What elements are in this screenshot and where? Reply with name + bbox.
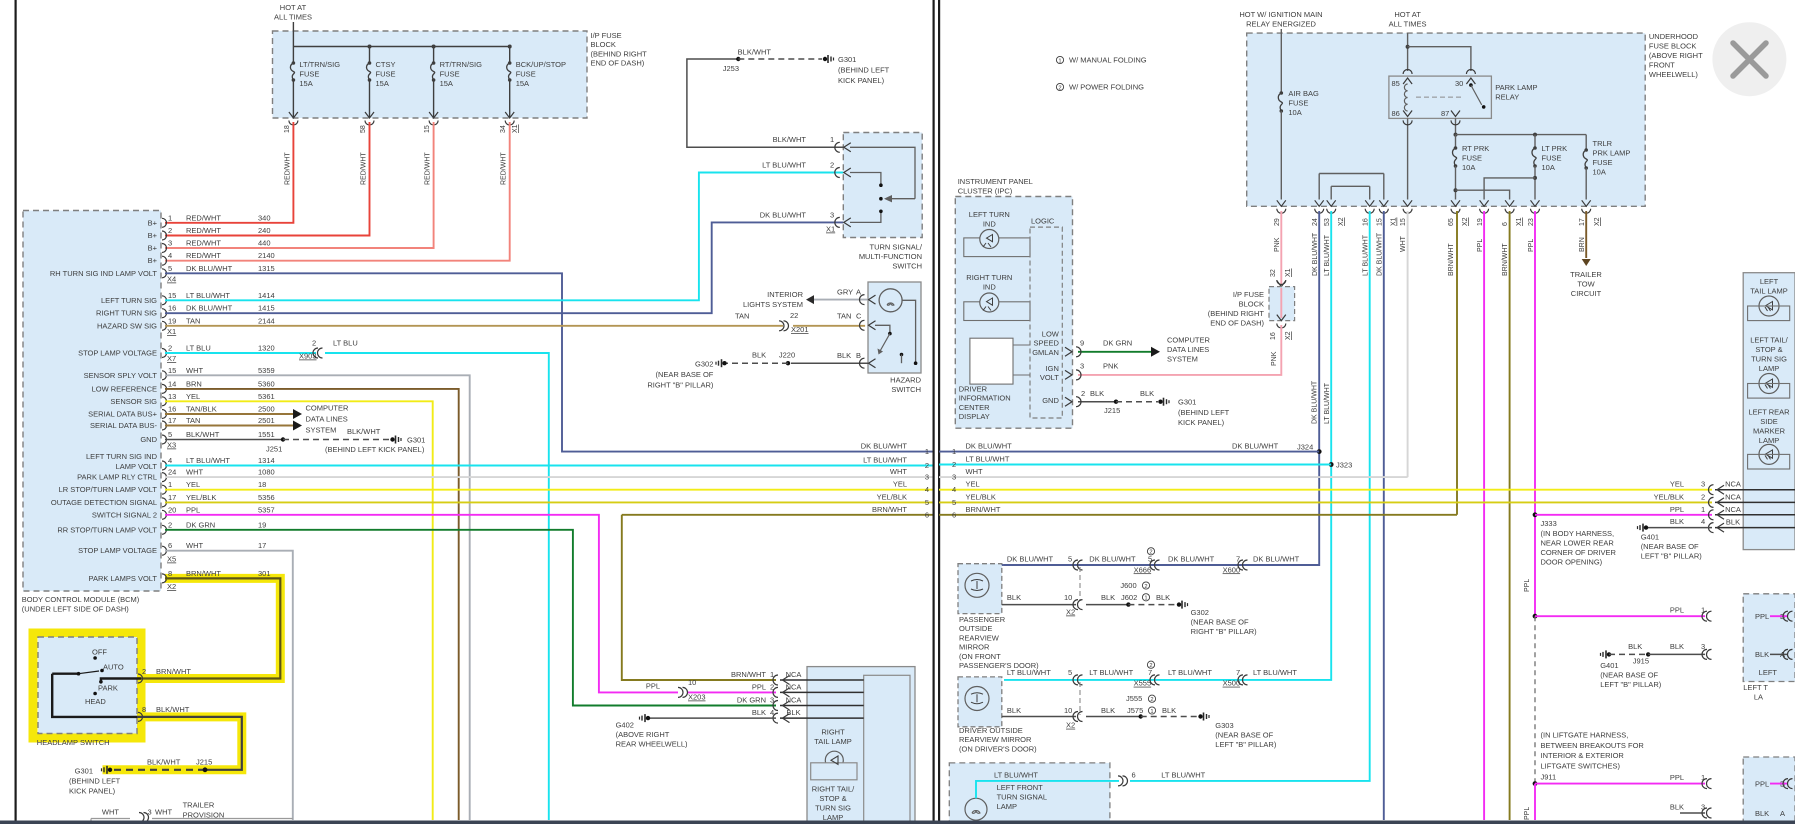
svg-text:16: 16 [1270, 332, 1277, 340]
svg-text:PNK: PNK [1103, 361, 1118, 370]
svg-text:RIGHT TAIL/: RIGHT TAIL/ [812, 785, 855, 794]
svg-text:DK BLU/WHT: DK BLU/WHT [1168, 555, 1215, 564]
svg-text:(ON FRONT: (ON FRONT [959, 652, 1001, 661]
svg-text:ALL TIMES: ALL TIMES [274, 13, 312, 22]
svg-text:DK BLU/WHT: DK BLU/WHT [1232, 442, 1279, 451]
svg-text:LEFT T: LEFT T [1743, 683, 1768, 692]
svg-text:W/ MANUAL FOLDING: W/ MANUAL FOLDING [1069, 56, 1147, 65]
svg-text:END OF DASH): END OF DASH) [1210, 319, 1264, 328]
svg-text:CIRCUIT: CIRCUIT [1571, 289, 1602, 298]
svg-text:1320: 1320 [258, 344, 275, 353]
svg-text:PPL: PPL [1524, 807, 1531, 820]
svg-text:X2: X2 [1462, 217, 1469, 226]
svg-text:AUTO: AUTO [103, 663, 124, 672]
svg-text:RIGHT: RIGHT [821, 728, 845, 737]
svg-text:2: 2 [1149, 663, 1152, 669]
svg-text:1: 1 [952, 447, 956, 456]
svg-text:1: 1 [925, 447, 929, 456]
svg-text:2: 2 [312, 339, 316, 348]
svg-text:3: 3 [830, 211, 834, 220]
svg-text:A: A [1780, 809, 1785, 818]
svg-text:J220: J220 [779, 351, 795, 360]
svg-text:RIGHT TURN: RIGHT TURN [966, 273, 1012, 282]
svg-text:IGN: IGN [1046, 364, 1059, 373]
svg-text:2: 2 [952, 460, 956, 469]
svg-text:LOW: LOW [1042, 330, 1060, 339]
svg-text:DK BLU/WHT: DK BLU/WHT [1377, 232, 1384, 276]
svg-text:1314: 1314 [258, 456, 275, 465]
svg-text:NCA: NCA [1725, 480, 1741, 489]
svg-text:G303: G303 [1215, 721, 1233, 730]
svg-text:1: 1 [1701, 606, 1705, 615]
svg-text:LT BLU/WHT: LT BLU/WHT [186, 291, 230, 300]
svg-text:5357: 5357 [258, 505, 275, 514]
svg-text:LAMP: LAMP [997, 802, 1017, 811]
svg-text:2: 2 [168, 226, 172, 235]
svg-text:2: 2 [1149, 550, 1152, 556]
svg-text:DK BLU/WHT: DK BLU/WHT [1089, 555, 1136, 564]
svg-text:REARVIEW: REARVIEW [959, 633, 1000, 642]
svg-text:LAMP VOLT: LAMP VOLT [116, 462, 158, 471]
svg-text:3: 3 [1701, 642, 1705, 651]
svg-text:RED/WHT: RED/WHT [186, 239, 221, 248]
svg-text:C: C [856, 312, 862, 321]
svg-text:DRIVER: DRIVER [959, 385, 988, 394]
svg-text:LIGHTS SYSTEM: LIGHTS SYSTEM [743, 300, 803, 309]
svg-text:6: 6 [168, 541, 172, 550]
svg-text:(NEAR BASE OF: (NEAR BASE OF [1215, 731, 1273, 740]
svg-text:YEL: YEL [186, 480, 200, 489]
svg-text:X1: X1 [512, 124, 519, 133]
svg-text:G302: G302 [695, 360, 713, 369]
svg-text:16: 16 [1363, 218, 1370, 226]
svg-text:BLK: BLK [1162, 706, 1176, 715]
svg-text:B+: B+ [148, 244, 158, 253]
svg-text:X600: X600 [1223, 565, 1241, 574]
svg-text:TAIL LAMP: TAIL LAMP [814, 737, 852, 746]
svg-text:6: 6 [1502, 222, 1509, 226]
svg-text:PPL: PPL [1755, 779, 1769, 788]
svg-text:10A: 10A [1288, 108, 1301, 117]
svg-text:MARKER: MARKER [1753, 427, 1786, 436]
svg-text:1: 1 [1701, 773, 1705, 782]
svg-text:DOOR OPENING): DOOR OPENING) [1541, 558, 1603, 567]
svg-text:RED/WHT: RED/WHT [186, 251, 221, 260]
svg-text:PPL: PPL [1528, 239, 1535, 252]
svg-text:LAMP: LAMP [1759, 364, 1779, 373]
svg-text:BLK: BLK [1670, 803, 1684, 812]
svg-text:J251: J251 [266, 445, 282, 454]
svg-text:J323: J323 [1336, 461, 1352, 470]
svg-text:34: 34 [500, 125, 507, 133]
svg-text:YEL: YEL [1670, 480, 1684, 489]
svg-text:1414: 1414 [258, 291, 275, 300]
svg-text:2: 2 [925, 461, 929, 470]
svg-text:HAZARD SW SIG: HAZARD SW SIG [97, 321, 157, 330]
svg-text:TRLR: TRLR [1593, 139, 1613, 148]
svg-text:DISPLAY: DISPLAY [959, 412, 990, 421]
svg-text:LT BLU: LT BLU [186, 344, 211, 353]
svg-text:LEFT REAR: LEFT REAR [1748, 408, 1790, 417]
svg-text:G301: G301 [75, 766, 93, 775]
svg-text:8: 8 [142, 705, 146, 714]
svg-text:4: 4 [952, 485, 956, 494]
svg-text:PNK: PNK [1271, 351, 1278, 366]
svg-text:PPL: PPL [752, 682, 766, 691]
svg-text:LT BLU/WHT: LT BLU/WHT [863, 456, 907, 465]
svg-text:3: 3 [1701, 803, 1705, 812]
svg-text:YEL/BLK: YEL/BLK [186, 493, 216, 502]
svg-text:UNDERHOOD: UNDERHOOD [1649, 32, 1699, 41]
svg-text:DK BLU/WHT: DK BLU/WHT [186, 304, 233, 313]
svg-text:LOGIC: LOGIC [1031, 217, 1055, 226]
svg-text:14: 14 [168, 379, 176, 388]
svg-text:BRN/WHT: BRN/WHT [731, 670, 766, 679]
svg-text:J324: J324 [1297, 443, 1313, 452]
svg-text:LT BLU/WHT: LT BLU/WHT [1253, 668, 1297, 677]
svg-text:STOP &: STOP & [819, 794, 846, 803]
svg-text:240: 240 [258, 226, 271, 235]
svg-text:2: 2 [830, 161, 834, 170]
svg-text:19: 19 [168, 316, 176, 325]
svg-text:HOT AT: HOT AT [280, 3, 307, 12]
svg-text:SERIAL DATA BUS+: SERIAL DATA BUS+ [88, 410, 157, 419]
svg-text:CENTER: CENTER [959, 403, 990, 412]
svg-text:440: 440 [258, 239, 271, 248]
svg-text:PPL: PPL [186, 505, 200, 514]
svg-text:WHT: WHT [186, 366, 203, 375]
svg-text:X2: X2 [1066, 608, 1075, 617]
svg-text:LT BLU/WHT: LT BLU/WHT [966, 455, 1010, 464]
svg-text:16: 16 [168, 405, 176, 414]
svg-text:GMLAN: GMLAN [1032, 348, 1059, 357]
svg-text:BLK: BLK [1670, 642, 1684, 651]
svg-text:OFF: OFF [92, 648, 107, 657]
svg-text:WHT: WHT [186, 468, 203, 477]
svg-text:YEL: YEL [893, 480, 907, 489]
svg-text:2: 2 [1144, 584, 1147, 590]
svg-text:DK BLU/WHT: DK BLU/WHT [1007, 555, 1054, 564]
svg-text:3: 3 [952, 473, 956, 482]
svg-text:2500: 2500 [258, 405, 275, 414]
svg-text:X7: X7 [167, 354, 176, 363]
svg-text:J215: J215 [196, 758, 212, 767]
svg-text:5361: 5361 [258, 392, 275, 401]
svg-text:J215: J215 [1104, 406, 1120, 415]
svg-text:2: 2 [1150, 697, 1153, 703]
svg-text:RED/WHT: RED/WHT [501, 152, 508, 185]
svg-text:LT BLU: LT BLU [333, 339, 358, 348]
svg-text:1: 1 [168, 213, 172, 222]
svg-text:SWITCH: SWITCH [892, 262, 922, 271]
svg-text:TURN SIG: TURN SIG [1751, 355, 1787, 364]
svg-text:PASSENGER: PASSENGER [959, 615, 1006, 624]
svg-text:2: 2 [168, 344, 172, 353]
svg-text:LT BLU/WHT: LT BLU/WHT [1168, 668, 1212, 677]
svg-text:STOP &: STOP & [1755, 345, 1782, 354]
svg-text:SYSTEM: SYSTEM [1167, 355, 1198, 364]
svg-text:NCA: NCA [786, 670, 802, 679]
svg-text:2501: 2501 [258, 416, 275, 425]
svg-text:15: 15 [424, 125, 431, 133]
svg-text:1080: 1080 [258, 468, 275, 477]
svg-text:5: 5 [168, 264, 172, 273]
svg-text:B+: B+ [148, 231, 158, 240]
svg-text:65: 65 [1448, 218, 1455, 226]
svg-text:HOT W/ IGNITION MAIN: HOT W/ IGNITION MAIN [1239, 10, 1322, 19]
svg-text:1: 1 [1058, 58, 1061, 64]
svg-text:2: 2 [1058, 85, 1061, 91]
svg-text:TRAILER: TRAILER [183, 801, 215, 810]
svg-text:A: A [856, 288, 861, 297]
svg-text:LAMP: LAMP [1759, 436, 1779, 445]
svg-text:J575: J575 [1127, 706, 1143, 715]
svg-text:SYSTEM: SYSTEM [306, 426, 337, 435]
svg-text:X1: X1 [1391, 217, 1398, 226]
svg-text:HEAD: HEAD [85, 697, 106, 706]
svg-text:PARK LAMP RLY CTRL: PARK LAMP RLY CTRL [77, 473, 157, 482]
svg-text:15: 15 [1377, 218, 1384, 226]
svg-text:LEFT "B" PILLAR): LEFT "B" PILLAR) [1600, 680, 1662, 689]
svg-text:END OF DASH): END OF DASH) [591, 59, 645, 68]
svg-text:3: 3 [1701, 480, 1705, 489]
svg-text:RED/WHT: RED/WHT [284, 152, 291, 185]
svg-text:5360: 5360 [258, 379, 275, 388]
svg-text:LEFT TURN: LEFT TURN [969, 210, 1010, 219]
svg-text:DK BLU/WHT: DK BLU/WHT [1253, 555, 1300, 564]
svg-text:(BEHIND RIGHT: (BEHIND RIGHT [591, 49, 648, 58]
svg-text:10A: 10A [1593, 168, 1606, 177]
svg-text:1: 1 [1144, 596, 1147, 602]
svg-text:B: B [856, 351, 861, 360]
svg-text:BLK: BLK [1755, 650, 1769, 659]
svg-text:BLK/WHT: BLK/WHT [156, 705, 190, 714]
svg-text:LT BLU/WHT: LT BLU/WHT [1089, 668, 1133, 677]
svg-text:2140: 2140 [258, 251, 275, 260]
svg-text:RR STOP/TURN LAMP VOLT: RR STOP/TURN LAMP VOLT [57, 525, 157, 534]
svg-text:5356: 5356 [258, 493, 275, 502]
svg-text:LA: LA [1754, 693, 1763, 702]
svg-text:SENSOR SIG: SENSOR SIG [110, 397, 157, 406]
svg-text:PRK LAMP: PRK LAMP [1593, 149, 1631, 158]
svg-text:J333: J333 [1541, 519, 1557, 528]
svg-text:CLUSTER (IPC): CLUSTER (IPC) [958, 186, 1013, 195]
svg-text:NCA: NCA [1725, 505, 1741, 514]
svg-text:BLK: BLK [837, 351, 851, 360]
svg-text:WHT: WHT [1400, 235, 1407, 252]
svg-text:15: 15 [168, 291, 176, 300]
svg-text:LT BLU/WHT: LT BLU/WHT [1007, 668, 1051, 677]
svg-text:PPL: PPL [1477, 239, 1484, 252]
svg-text:58: 58 [360, 125, 367, 133]
svg-text:NCA: NCA [786, 682, 802, 691]
svg-text:SWITCH: SWITCH [891, 385, 921, 394]
svg-text:RELAY ENERGIZED: RELAY ENERGIZED [1246, 20, 1316, 29]
svg-text:BLOCK: BLOCK [1239, 300, 1264, 309]
svg-text:6: 6 [952, 510, 956, 519]
svg-text:BRN/WHT: BRN/WHT [1502, 243, 1509, 276]
svg-text:X2: X2 [1338, 217, 1345, 226]
svg-text:AIR BAG: AIR BAG [1288, 89, 1319, 98]
svg-text:RT/TRN/SIG: RT/TRN/SIG [440, 60, 483, 69]
svg-text:3: 3 [148, 808, 152, 817]
svg-text:X203: X203 [688, 693, 706, 702]
svg-text:INFORMATION: INFORMATION [959, 394, 1011, 403]
svg-text:BLK: BLK [786, 708, 800, 717]
svg-text:LT BLU/WHT: LT BLU/WHT [186, 456, 230, 465]
svg-text:PARK LAMP: PARK LAMP [1495, 83, 1537, 92]
svg-text:RED/WHT: RED/WHT [425, 152, 432, 185]
svg-text:1551: 1551 [258, 430, 275, 439]
svg-text:1: 1 [1701, 505, 1705, 514]
svg-text:RED/WHT: RED/WHT [361, 152, 368, 185]
svg-text:8: 8 [168, 569, 172, 578]
svg-text:GND: GND [1042, 396, 1059, 405]
svg-text:2: 2 [1701, 492, 1705, 501]
svg-text:FUSE BLOCK: FUSE BLOCK [1649, 42, 1697, 51]
svg-text:SERIAL DATA BUS-: SERIAL DATA BUS- [90, 421, 157, 430]
svg-text:BLK: BLK [1670, 517, 1684, 526]
svg-text:LEFT TAIL/: LEFT TAIL/ [1750, 336, 1788, 345]
svg-text:17: 17 [1579, 218, 1586, 226]
svg-text:5: 5 [1068, 555, 1072, 564]
svg-text:LT BLU/WHT: LT BLU/WHT [1324, 382, 1331, 424]
svg-text:X1: X1 [826, 225, 835, 234]
svg-text:24: 24 [1312, 218, 1319, 226]
svg-text:DK GRN: DK GRN [186, 520, 215, 529]
svg-text:FUSE: FUSE [516, 70, 536, 79]
svg-text:X201: X201 [791, 325, 809, 334]
svg-text:9: 9 [1080, 338, 1084, 347]
svg-text:(ABOVE RIGHT: (ABOVE RIGHT [616, 730, 670, 739]
svg-text:(BEHIND LEFT KICK PANEL): (BEHIND LEFT KICK PANEL) [325, 445, 425, 454]
svg-text:TURN SIG: TURN SIG [815, 804, 851, 813]
svg-text:1315: 1315 [258, 264, 275, 273]
svg-text:6: 6 [1132, 770, 1136, 779]
svg-text:SPEED: SPEED [1033, 339, 1059, 348]
svg-text:BLK: BLK [1101, 706, 1115, 715]
svg-text:X555: X555 [1134, 679, 1152, 688]
svg-text:J600: J600 [1120, 581, 1136, 590]
svg-text:BLK/WHT: BLK/WHT [738, 48, 772, 57]
svg-text:LT BLU/WHT: LT BLU/WHT [1363, 234, 1370, 276]
svg-text:BLK/WHT: BLK/WHT [347, 427, 381, 436]
svg-text:X5: X5 [167, 555, 176, 564]
svg-text:HEADLAMP SWITCH: HEADLAMP SWITCH [37, 738, 110, 747]
svg-text:GRY: GRY [837, 288, 853, 297]
svg-text:(BEHIND LEFT: (BEHIND LEFT [838, 66, 890, 75]
svg-text:29: 29 [1274, 218, 1281, 226]
svg-text:PPL: PPL [646, 681, 660, 690]
svg-text:(NEAR BASE OF: (NEAR BASE OF [1191, 618, 1249, 627]
svg-text:LEFT TURN SIG IND: LEFT TURN SIG IND [86, 452, 158, 461]
svg-text:TAN: TAN [735, 312, 749, 321]
svg-text:53: 53 [1324, 218, 1331, 226]
svg-text:YEL/BLK: YEL/BLK [966, 492, 996, 501]
svg-text:(IN BODY HARNESS,: (IN BODY HARNESS, [1541, 529, 1615, 538]
svg-text:OUTAGE DETECTION SIGNAL: OUTAGE DETECTION SIGNAL [51, 498, 157, 507]
svg-text:10: 10 [688, 678, 696, 687]
svg-text:FUSE: FUSE [376, 70, 396, 79]
svg-text:RIGHT "B" PILLAR): RIGHT "B" PILLAR) [647, 381, 714, 390]
svg-text:SIDE: SIDE [1760, 417, 1778, 426]
svg-text:REAR WHEELWELL): REAR WHEELWELL) [616, 740, 688, 749]
svg-text:15A: 15A [440, 79, 453, 88]
svg-text:YEL: YEL [186, 392, 200, 401]
svg-text:LT BLU/WHT: LT BLU/WHT [994, 770, 1038, 779]
svg-text:DK GRN: DK GRN [737, 696, 766, 705]
svg-text:I/P FUSE: I/P FUSE [1233, 290, 1264, 299]
svg-text:J253: J253 [723, 64, 739, 73]
svg-text:TAN: TAN [186, 416, 200, 425]
svg-text:TURN SIGNAL/: TURN SIGNAL/ [869, 243, 922, 252]
svg-text:BLK/WHT: BLK/WHT [147, 758, 181, 767]
svg-text:16: 16 [168, 304, 176, 313]
svg-text:FUSE: FUSE [1593, 158, 1613, 167]
svg-text:TAN: TAN [186, 316, 200, 325]
svg-text:X1: X1 [167, 327, 176, 336]
svg-text:BRN/WHT: BRN/WHT [1448, 243, 1455, 276]
svg-text:3: 3 [925, 473, 929, 482]
svg-text:COMPUTER: COMPUTER [1167, 336, 1211, 345]
svg-text:RIGHT "B" PILLAR): RIGHT "B" PILLAR) [1191, 627, 1258, 636]
svg-text:(ABOVE RIGHT: (ABOVE RIGHT [1649, 51, 1703, 60]
svg-text:FRONT: FRONT [1649, 61, 1675, 70]
svg-text:BLK: BLK [1726, 518, 1740, 527]
svg-text:BRN/WHT: BRN/WHT [872, 505, 907, 514]
svg-text:RED/WHT: RED/WHT [186, 213, 221, 222]
svg-text:LEFT: LEFT [1759, 668, 1778, 677]
svg-text:LEFT "B" PILLAR): LEFT "B" PILLAR) [1215, 740, 1277, 749]
svg-text:DK BLU/WHT: DK BLU/WHT [186, 264, 233, 273]
svg-text:5: 5 [925, 498, 929, 507]
svg-text:BLK/WHT: BLK/WHT [773, 135, 807, 144]
svg-text:DATA LINES: DATA LINES [306, 415, 348, 424]
svg-text:10: 10 [1064, 706, 1072, 715]
svg-text:PARK: PARK [98, 684, 118, 693]
svg-text:INTERIOR: INTERIOR [767, 290, 803, 299]
svg-text:PPL: PPL [1670, 773, 1684, 782]
svg-text:340: 340 [258, 213, 271, 222]
svg-text:4: 4 [1701, 517, 1705, 526]
svg-text:VOLT: VOLT [1040, 373, 1059, 382]
svg-text:2: 2 [1081, 389, 1085, 398]
svg-text:17: 17 [168, 416, 176, 425]
svg-text:24: 24 [168, 468, 176, 477]
svg-text:86: 86 [1392, 109, 1400, 118]
svg-text:TOW: TOW [1577, 280, 1595, 289]
svg-text:DATA LINES: DATA LINES [1167, 345, 1209, 354]
svg-text:MIRROR: MIRROR [959, 643, 990, 652]
svg-text:DK GRN: DK GRN [1103, 338, 1132, 347]
svg-text:FUSE: FUSE [440, 70, 460, 79]
svg-text:LT BLU/WHT: LT BLU/WHT [1161, 770, 1205, 779]
svg-text:LIFTGATE SWITCHES): LIFTGATE SWITCHES) [1541, 761, 1621, 770]
svg-text:G301: G301 [838, 55, 856, 64]
svg-text:X1: X1 [1516, 217, 1523, 226]
svg-text:19: 19 [258, 520, 266, 529]
svg-text:INSTRUMENT PANEL: INSTRUMENT PANEL [958, 177, 1033, 186]
svg-text:2: 2 [168, 520, 172, 529]
svg-text:DK BLU/WHT: DK BLU/WHT [1312, 380, 1319, 424]
svg-text:DK BLU/WHT: DK BLU/WHT [966, 442, 1013, 451]
svg-text:STOP LAMP VOLTAGE: STOP LAMP VOLTAGE [78, 349, 157, 358]
svg-text:10A: 10A [1542, 163, 1555, 172]
svg-text:J915: J915 [1633, 657, 1649, 666]
svg-text:1: 1 [1150, 709, 1153, 715]
svg-text:WHT: WHT [155, 808, 172, 817]
svg-text:G302: G302 [1191, 608, 1209, 617]
